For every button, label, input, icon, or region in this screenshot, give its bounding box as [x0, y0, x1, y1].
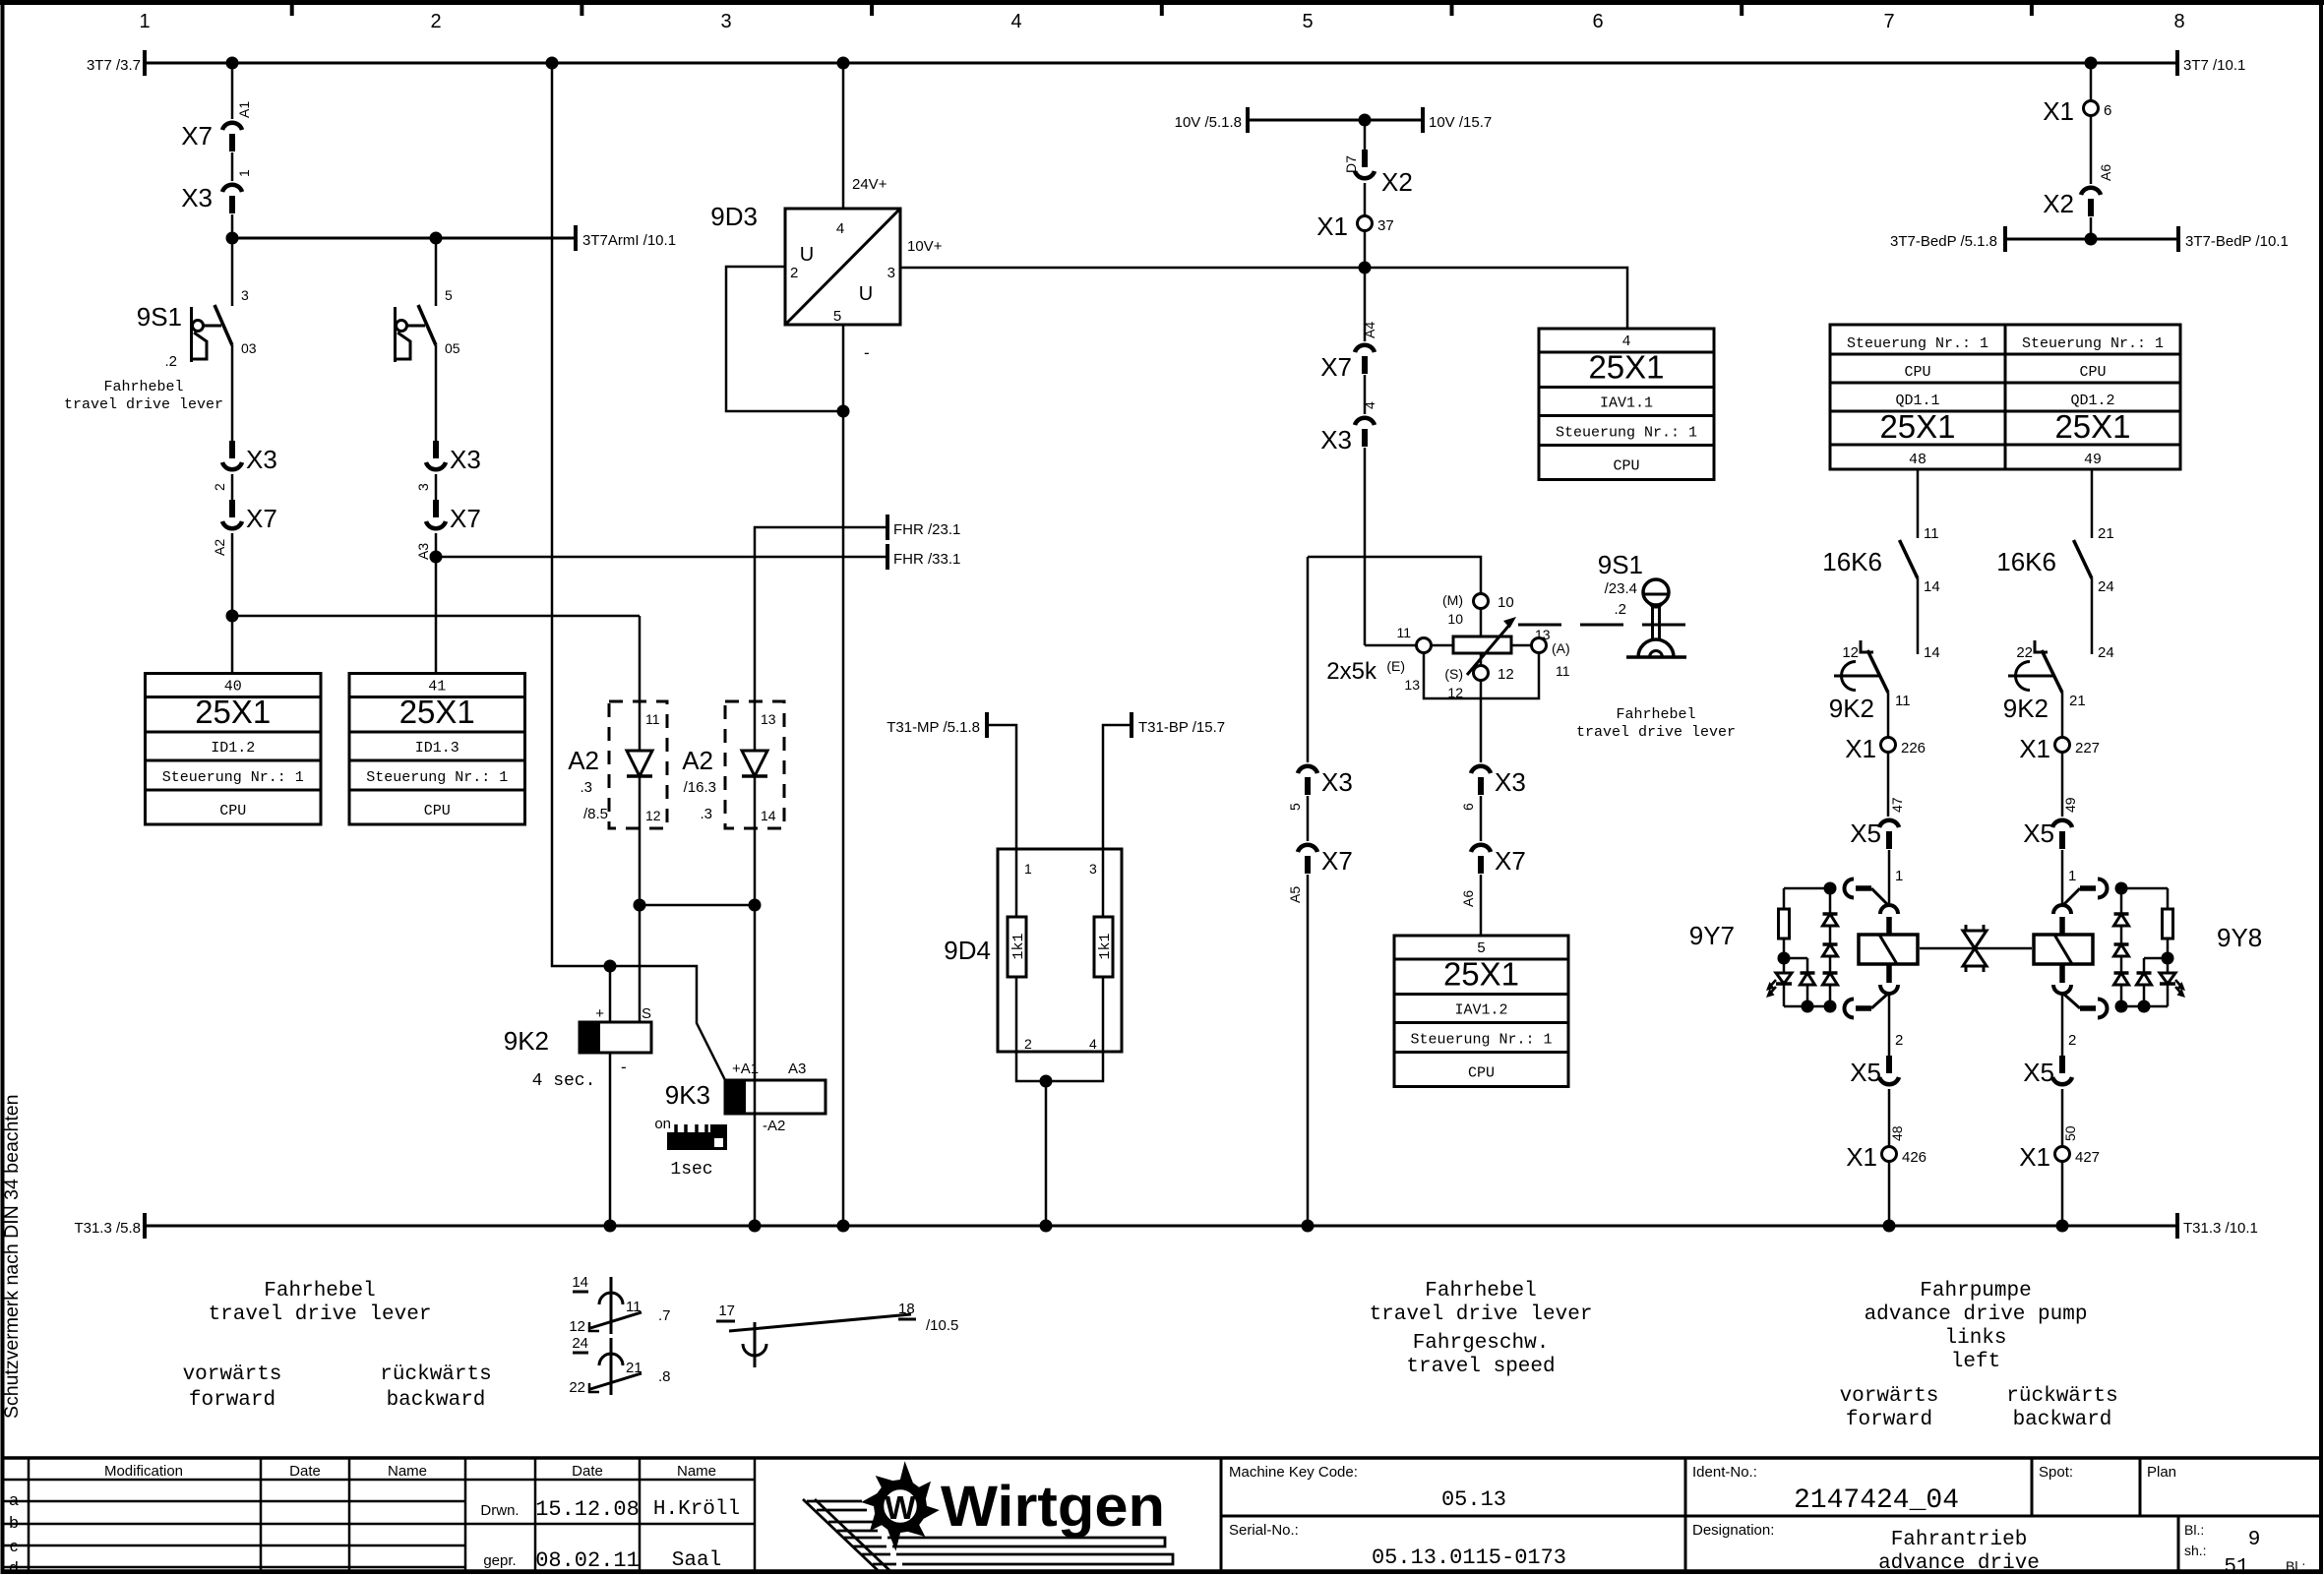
svg-text:1k1: 1k1 — [1097, 933, 1114, 959]
svg-text:4: 4 — [1621, 333, 1630, 350]
svg-text:4: 4 — [1010, 11, 1021, 32]
svg-text:A5: A5 — [1287, 886, 1303, 903]
svg-text:c: c — [10, 1537, 19, 1555]
svg-text:travel drive lever: travel drive lever — [1370, 1303, 1593, 1326]
svg-text:11: 11 — [645, 711, 660, 727]
svg-text:CPU: CPU — [219, 803, 246, 819]
svg-text:6: 6 — [2104, 102, 2111, 119]
svg-text:/23.4: /23.4 — [1605, 580, 1637, 597]
svg-text:travel speed: travel speed — [1406, 1356, 1555, 1378]
diode block A2 /16.3 .3 (dashed) — [725, 701, 784, 828]
pot terminal (M) 10 — [1474, 594, 1489, 609]
svg-text:Fahrhebel: Fahrhebel — [103, 379, 183, 395]
svg-text:X3: X3 — [181, 183, 213, 212]
terminal X1 pin 427 — [2061, 1089, 2064, 1146]
svg-text:W: W — [885, 1489, 916, 1526]
svg-text:13: 13 — [761, 711, 776, 727]
svg-text:25X1: 25X1 — [1443, 956, 1519, 993]
svg-text:X1: X1 — [2043, 96, 2074, 126]
wire X3-4 down to potentiometer (E) feed — [1364, 448, 1367, 645]
svg-text:Serial-No.:: Serial-No.: — [1229, 1522, 1299, 1539]
svg-text:Fahrhebel: Fahrhebel — [1425, 1280, 1536, 1302]
DIP switch icon 9K3 timing — [667, 1132, 727, 1150]
svg-text:X1: X1 — [2019, 1142, 2050, 1172]
svg-text:X1: X1 — [1845, 734, 1876, 763]
connector X3 pin 2 — [229, 441, 235, 458]
pot terminal (S) 12 — [1480, 653, 1483, 665]
connector block 25X1 pin 5 IAV1.2 — [1394, 936, 1568, 1087]
svg-text:11: 11 — [1556, 663, 1570, 679]
svg-text:3T7-BedP /5.1.8: 3T7-BedP /5.1.8 — [1890, 233, 1997, 250]
svg-text:Date: Date — [289, 1463, 321, 1480]
relay coil 9K2 (4 sec.) — [609, 966, 612, 1022]
connector X3 pin 5 — [1307, 557, 1310, 762]
svg-text:A6: A6 — [1460, 890, 1476, 907]
wire col2 below switch — [435, 345, 438, 441]
svg-text:Spot:: Spot: — [2039, 1464, 2073, 1481]
svg-text:3: 3 — [887, 265, 895, 281]
svg-text:.3: .3 — [700, 806, 712, 822]
svg-text:T31-BP /15.7: T31-BP /15.7 — [1138, 719, 1225, 736]
resistor branch — [2167, 888, 2170, 909]
svg-text:6: 6 — [1460, 803, 1476, 811]
svg-text:4: 4 — [1362, 401, 1377, 409]
svg-text:X5: X5 — [2023, 1058, 2054, 1087]
svg-text:FHR /33.1: FHR /33.1 — [893, 551, 960, 568]
svg-text:-A2: -A2 — [763, 1118, 785, 1134]
wire to T31.3 rail — [1888, 1162, 1891, 1226]
svg-text:2: 2 — [212, 483, 227, 491]
svg-text:CPU: CPU — [1613, 458, 1639, 475]
svg-text:FHR /23.1: FHR /23.1 — [893, 521, 960, 538]
svg-text:.7: .7 — [658, 1307, 671, 1324]
wire col A6 to IAV1.2 box — [1480, 875, 1483, 936]
connector X2 pin D7 — [1364, 120, 1367, 150]
svg-text:10: 10 — [1447, 611, 1463, 627]
svg-text:S: S — [642, 1005, 651, 1022]
svg-text:49: 49 — [2062, 797, 2078, 813]
svg-text:/8.5: /8.5 — [583, 806, 608, 822]
svg-text:Name: Name — [677, 1463, 716, 1480]
svg-text:14: 14 — [1924, 644, 1940, 661]
svg-text:advance drive: advance drive — [1878, 1552, 2040, 1575]
svg-text:2: 2 — [430, 11, 441, 32]
svg-text:3T7-BedP /10.1: 3T7-BedP /10.1 — [2185, 233, 2289, 250]
svg-text:9K2: 9K2 — [2003, 694, 2049, 723]
svg-text:1: 1 — [2068, 868, 2076, 884]
terminal X1 pin 226 — [1887, 693, 1890, 737]
wire col1 from 3T7 rail — [231, 63, 234, 119]
connector X3 pin 3 — [433, 441, 439, 458]
internal suppression network rails — [2121, 887, 2168, 890]
svg-text:9: 9 — [2248, 1529, 2261, 1551]
svg-text:4: 4 — [836, 220, 844, 237]
svg-text:IAV1.1: IAV1.1 — [1600, 395, 1653, 412]
svg-text:2: 2 — [1024, 1036, 1032, 1052]
relay contact 16K6 — [2074, 540, 2093, 578]
svg-text:Wirtgen: Wirtgen — [941, 1475, 1165, 1539]
svg-text:A3: A3 — [415, 543, 431, 560]
svg-text:25X1: 25X1 — [2054, 408, 2130, 445]
net 3T7-BedP rail — [2090, 217, 2093, 239]
terminal X1 pin 227 — [2061, 693, 2064, 737]
svg-text:426: 426 — [1902, 1149, 1926, 1166]
svg-text:.2: .2 — [1614, 601, 1626, 618]
terminal X1 pin 6 — [2084, 101, 2099, 116]
wire col1 below switch — [231, 345, 234, 441]
svg-text:1k1: 1k1 — [1010, 933, 1027, 959]
svg-text:(A): (A) — [1552, 640, 1570, 656]
svg-text:3: 3 — [1089, 861, 1097, 877]
wire (S) down to X3-6 — [1480, 681, 1483, 762]
voltage converter 9D3 — [785, 209, 900, 325]
svg-text:Steuerung Nr.: 1: Steuerung Nr.: 1 — [162, 769, 304, 786]
resistor 1k1 left — [1015, 849, 1018, 917]
svg-text:48: 48 — [1889, 1125, 1905, 1141]
svg-text:12: 12 — [569, 1318, 585, 1335]
svg-text:X1: X1 — [1846, 1142, 1877, 1172]
svg-text:A3: A3 — [788, 1060, 806, 1077]
svg-text:22: 22 — [569, 1379, 585, 1396]
svg-text:25X1: 25X1 — [1879, 408, 1955, 445]
svg-text:9K3: 9K3 — [665, 1080, 710, 1110]
svg-text:41: 41 — [428, 679, 446, 696]
svg-text:Designation:: Designation: — [1692, 1522, 1774, 1539]
svg-text:5: 5 — [445, 287, 453, 303]
svg-text:X3: X3 — [1495, 767, 1526, 797]
svg-text:24: 24 — [2098, 578, 2114, 595]
wire to 3T7ArmI junction and switch — [231, 214, 234, 306]
svg-text:51: 51 — [2224, 1556, 2248, 1575]
svg-text:1: 1 — [1024, 861, 1032, 877]
svg-text:40: 40 — [224, 679, 242, 696]
svg-text:6: 6 — [1592, 11, 1603, 32]
svg-text:05: 05 — [445, 340, 460, 356]
svg-text:2: 2 — [2068, 1032, 2076, 1049]
svg-text:5: 5 — [1287, 803, 1303, 811]
svg-text:.3: .3 — [580, 779, 592, 796]
svg-text:U: U — [800, 244, 814, 266]
svg-text:-: - — [621, 1058, 627, 1076]
relay contact 9K2 delayed — [1867, 650, 1888, 693]
svg-text:gepr.: gepr. — [483, 1552, 516, 1569]
svg-text:13: 13 — [1535, 627, 1551, 642]
potentiometer 2x5k resistor body — [1453, 636, 1511, 653]
solenoid coil — [2034, 935, 2093, 964]
pot wiper arrow — [1467, 623, 1511, 675]
svg-text:A2: A2 — [212, 539, 227, 556]
svg-text:1: 1 — [1895, 868, 1903, 884]
svg-text:7: 7 — [1883, 11, 1894, 32]
svg-text:227: 227 — [2075, 740, 2100, 757]
relay coil 9K3 (1sec) — [754, 1080, 757, 1114]
svg-text:sh.:: sh.: — [2184, 1543, 2207, 1558]
svg-text:(M): (M) — [1442, 592, 1463, 608]
svg-text:T31-MP /5.1.8: T31-MP /5.1.8 — [887, 719, 980, 736]
hydraulic valve symbol between 9Y7 and 9Y8 — [1920, 947, 2032, 950]
svg-text:2x5k: 2x5k — [1326, 658, 1377, 685]
svg-text:5: 5 — [833, 308, 841, 325]
svg-text:ID1.3: ID1.3 — [415, 740, 459, 757]
svg-text:on: on — [654, 1116, 671, 1132]
wire col1 to box 40 — [231, 533, 234, 673]
connector X3 pin 1 — [231, 152, 234, 181]
svg-text:Fahrantrieb: Fahrantrieb — [1891, 1529, 2028, 1551]
svg-text:+A1: +A1 — [732, 1060, 759, 1077]
svg-text:427: 427 — [2075, 1149, 2100, 1166]
connector X7 pin A3 — [435, 474, 438, 500]
wire from QD box pin to 16K6 contact (226) — [1917, 469, 1920, 538]
svg-text:10V /5.1.8: 10V /5.1.8 — [1175, 114, 1242, 131]
title info cells — [1220, 1458, 1223, 1571]
solenoid coil — [1859, 935, 1918, 964]
svg-text:Steuerung Nr.: 1: Steuerung Nr.: 1 — [2022, 335, 2164, 352]
svg-text:X3: X3 — [1320, 425, 1352, 454]
svg-text:49: 49 — [2084, 452, 2102, 468]
plug pair top — [2098, 879, 2108, 898]
svg-text:U: U — [859, 283, 873, 305]
svg-text:10: 10 — [1498, 594, 1514, 611]
svg-text:CPU: CPU — [1468, 1065, 1495, 1082]
svg-text:12: 12 — [645, 808, 661, 823]
svg-text:9K2: 9K2 — [1829, 694, 1874, 723]
wire 9K3 A1-A2 through-wire — [754, 905, 757, 1080]
svg-text:4 sec.: 4 sec. — [532, 1071, 596, 1091]
svg-text:X2: X2 — [1381, 167, 1413, 197]
svg-text:Schutzvermerk nach DIN 34 beac: Schutzvermerk nach DIN 34 beachten — [1, 1094, 23, 1419]
connector X3 pin 6 — [1471, 766, 1491, 773]
svg-text:5: 5 — [1302, 11, 1313, 32]
svg-text:backward: backward — [387, 1389, 486, 1412]
pot terminal 11 (E) — [1365, 644, 1416, 647]
svg-text:21: 21 — [2069, 693, 2086, 709]
svg-text:T31.3 /5.8: T31.3 /5.8 — [74, 1220, 141, 1237]
svg-text:Drwn.: Drwn. — [480, 1502, 519, 1519]
junction dots on 3T7 rail — [226, 57, 239, 70]
wires A2 diodes to junction rail y920 — [639, 828, 642, 905]
svg-text:A1: A1 — [236, 101, 252, 118]
svg-text:25X1: 25X1 — [399, 694, 475, 730]
connector X3 pin 4 — [1364, 375, 1367, 414]
svg-text:forward: forward — [189, 1389, 275, 1412]
svg-text:Bl.:: Bl.: — [2184, 1522, 2204, 1538]
title block frame — [2, 1456, 2322, 1460]
svg-text:Steuerung Nr.: 1: Steuerung Nr.: 1 — [1556, 425, 1697, 442]
svg-text:12: 12 — [1842, 644, 1859, 661]
svg-text:+: + — [595, 1005, 604, 1022]
svg-text:rückwärts: rückwärts — [2006, 1385, 2117, 1408]
wire 9K2 minus to T31.3 rail — [609, 1053, 612, 1226]
svg-text:17: 17 — [718, 1302, 735, 1319]
controller block Steuerung QD1.1 / QD1.2 — [1830, 325, 2180, 469]
svg-text:9Y7: 9Y7 — [1689, 921, 1735, 950]
pot terminal 13 (A) — [1511, 644, 1531, 647]
svg-text:CPU: CPU — [1904, 364, 1930, 381]
svg-text:11: 11 — [1396, 625, 1411, 640]
net 10V+ from 9D3 pin3 — [900, 268, 1627, 329]
svg-text:-: - — [864, 343, 870, 362]
svg-text:b: b — [9, 1513, 18, 1532]
svg-text:(S): (S) — [1444, 666, 1463, 682]
svg-text:14: 14 — [1924, 578, 1940, 595]
terminal X1 pin 37 — [1364, 183, 1367, 215]
svg-text:T31.3 /10.1: T31.3 /10.1 — [2183, 1220, 2258, 1237]
svg-text:2147424_04: 2147424_04 — [1794, 1485, 1959, 1516]
svg-text:4: 4 — [1089, 1036, 1097, 1052]
svg-text:25X1: 25X1 — [1588, 349, 1664, 386]
svg-text:/16.3: /16.3 — [684, 779, 716, 796]
svg-text:3T7 /3.7: 3T7 /3.7 — [87, 57, 141, 74]
svg-text:forward: forward — [1846, 1409, 1932, 1431]
svg-text:9D3: 9D3 — [710, 202, 758, 231]
connector X5 pin 50 — [2061, 993, 2064, 1056]
svg-text:24: 24 — [572, 1335, 588, 1352]
resistor branch — [1783, 888, 1786, 909]
svg-text:14: 14 — [761, 808, 776, 823]
relay contact 9K2 delayed — [2042, 650, 2062, 693]
svg-text:.2: .2 — [164, 353, 177, 370]
net 3T7ArmI rail — [232, 237, 576, 240]
net 10V rail — [1248, 119, 1423, 122]
svg-text:ID1.2: ID1.2 — [211, 740, 255, 757]
plug pair bottom — [2059, 965, 2065, 983]
wire to T31.3 rail — [2061, 1162, 2064, 1226]
svg-text:14: 14 — [572, 1274, 588, 1291]
wire into A2 diode 11-12 — [639, 616, 642, 701]
mechanical link dashes to 9S1 lever — [1518, 624, 1685, 627]
svg-text:d: d — [9, 1558, 18, 1575]
svg-text:24V+: 24V+ — [852, 176, 887, 193]
svg-text:48: 48 — [1909, 452, 1926, 468]
svg-text:10V /15.7: 10V /15.7 — [1429, 114, 1492, 131]
svg-text:Steuerung Nr.: 1: Steuerung Nr.: 1 — [1847, 335, 1988, 352]
svg-text:9Y8: 9Y8 — [2217, 923, 2262, 952]
svg-text:X7: X7 — [1495, 846, 1526, 876]
svg-text:11: 11 — [626, 1299, 642, 1315]
9D3 pin2 loop wire — [726, 267, 843, 411]
svg-text:vorwärts: vorwärts — [183, 1363, 282, 1386]
resistor 1k1 right — [1102, 849, 1105, 917]
svg-text:X1: X1 — [2019, 734, 2050, 763]
svg-text:21: 21 — [626, 1360, 642, 1376]
svg-text:1: 1 — [139, 11, 150, 32]
wire col2 to box 41 with FHR/33.1 junction — [435, 533, 438, 673]
svg-text:2: 2 — [790, 265, 798, 281]
svg-text:25X1: 25X1 — [195, 694, 271, 730]
svg-text:21: 21 — [2098, 525, 2114, 542]
svg-text:X7: X7 — [450, 504, 481, 533]
wire 9K2 S terminal — [639, 905, 642, 1022]
internal suppression network rails — [1784, 887, 1830, 890]
svg-text:X3: X3 — [450, 445, 481, 474]
svg-text:11: 11 — [1924, 525, 1939, 542]
svg-text:travel drive lever: travel drive lever — [1576, 724, 1736, 741]
wire (M) branch from IAV line — [1308, 557, 1481, 594]
Wirtgen logo gear — [861, 1461, 940, 1551]
svg-text:X5: X5 — [1850, 1058, 1881, 1087]
svg-text:/10.5: /10.5 — [926, 1317, 958, 1334]
connector block 25X1 pin 4 IAV1.1 — [1539, 329, 1714, 480]
svg-text:3: 3 — [415, 483, 431, 491]
svg-text:X3: X3 — [1321, 767, 1353, 797]
wire from QD box pin to 16K6 contact (227) — [2091, 469, 2094, 538]
svg-text:Plan: Plan — [2147, 1464, 2176, 1481]
svg-text:9S1: 9S1 — [137, 302, 182, 332]
svg-text:X1: X1 — [1316, 212, 1348, 241]
plug pair top — [1845, 879, 1855, 898]
svg-text:12: 12 — [1498, 666, 1514, 683]
svg-text:05.13: 05.13 — [1441, 1487, 1506, 1512]
diode block A2 .3 /8.5 (dashed) — [609, 701, 667, 828]
two-diode branch — [2144, 957, 2168, 960]
three-diode branch — [2120, 888, 2123, 914]
svg-text:50: 50 — [2062, 1125, 2078, 1141]
svg-text:3: 3 — [720, 11, 731, 32]
svg-text:9K2: 9K2 — [504, 1026, 549, 1056]
svg-text:Fahrgeschw.: Fahrgeschw. — [1413, 1332, 1550, 1355]
svg-text:a: a — [9, 1490, 19, 1509]
svg-text:Steuerung Nr.: 1: Steuerung Nr.: 1 — [366, 769, 508, 786]
svg-text:Machine Key Code:: Machine Key Code: — [1229, 1464, 1358, 1481]
plug pair bottom — [1886, 965, 1892, 983]
connector X5 pin 48 — [1888, 993, 1891, 1056]
svg-text:11: 11 — [1895, 693, 1911, 709]
net FHR /23.1 — [755, 527, 887, 701]
svg-text:D7: D7 — [1343, 155, 1359, 173]
svg-text:10V+: 10V+ — [907, 238, 943, 255]
column ruler ticks — [290, 4, 294, 16]
svg-text:226: 226 — [1901, 740, 1926, 757]
wire col A5 to T31.3 rail — [1307, 875, 1310, 1226]
svg-text:QD1.2: QD1.2 — [2070, 393, 2114, 409]
svg-text:08.02.11: 08.02.11 — [535, 1548, 640, 1573]
svg-text:travel drive lever: travel drive lever — [64, 396, 223, 413]
connector X7 pin A6 — [1480, 796, 1483, 841]
svg-text:X5: X5 — [2023, 818, 2054, 848]
svg-text:16K6: 16K6 — [1996, 547, 2056, 576]
svg-text:37: 37 — [1377, 217, 1394, 234]
svg-text:rückwärts: rückwärts — [380, 1363, 491, 1386]
svg-text:5: 5 — [1477, 940, 1486, 957]
junction horizontal to A2 diode column — [232, 615, 640, 618]
svg-text:X7: X7 — [181, 121, 213, 151]
net T31.3 bottom rail — [145, 1225, 2177, 1228]
wire from 3T7 rail down to 9K2 branch — [552, 63, 725, 1080]
svg-text:IAV1.2: IAV1.2 — [1454, 1002, 1507, 1019]
revision table — [2, 1479, 755, 1482]
svg-text:left: left — [1951, 1351, 2000, 1373]
svg-text:1: 1 — [236, 169, 252, 177]
svg-text:3T7 /10.1: 3T7 /10.1 — [2183, 57, 2245, 74]
pot bottom frame wires — [1424, 653, 1539, 698]
svg-text:47: 47 — [1889, 797, 1905, 813]
svg-text:Fahrhebel: Fahrhebel — [1616, 706, 1695, 723]
connector block 25X1 pin 40 ID1.2 — [146, 674, 322, 825]
connector X7 pin A2 — [231, 474, 234, 500]
9D4 output junction to T31.3 rail — [1016, 1052, 1103, 1081]
svg-text:links: links — [1944, 1327, 2006, 1350]
svg-text:22: 22 — [2016, 644, 2033, 661]
svg-text:Ident-No.:: Ident-No.: — [1692, 1464, 1757, 1481]
svg-text:Modification: Modification — [104, 1463, 183, 1480]
svg-text:QD1.1: QD1.1 — [1895, 393, 1939, 409]
svg-text:03: 03 — [241, 340, 257, 356]
switch 9S1 .2 travel drive lever contact — [214, 305, 232, 345]
9D3 pin5 wire to T31.3 rail — [842, 325, 845, 1226]
svg-text:15.12.08: 15.12.08 — [535, 1497, 640, 1522]
net FHR /33.1 — [436, 556, 887, 559]
svg-text:Bl.:: Bl.: — [2286, 1558, 2305, 1574]
